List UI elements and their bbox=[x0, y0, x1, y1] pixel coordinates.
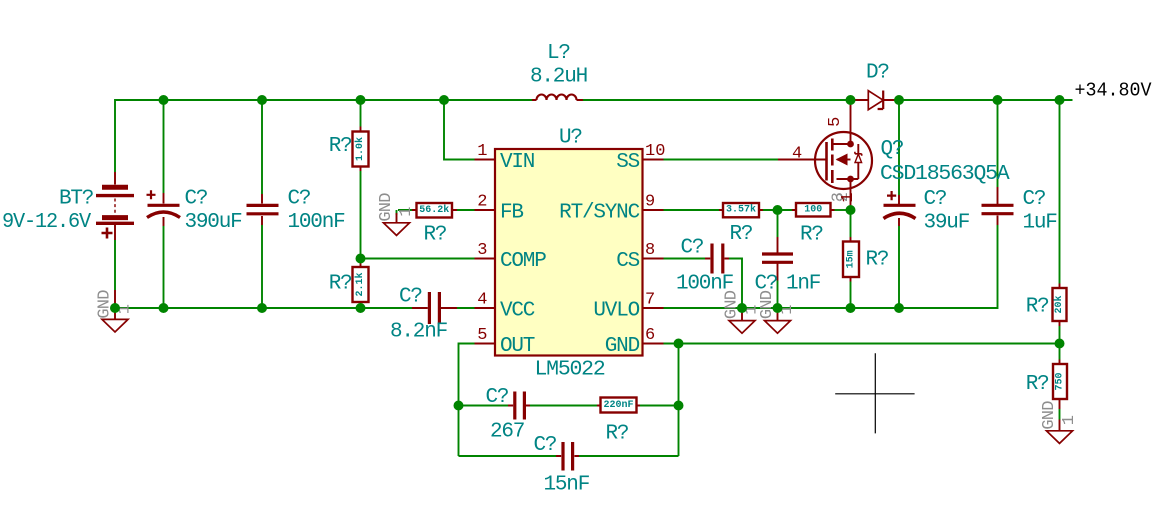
wire compensation right riser bbox=[678, 344, 680, 457]
wire compensation top branch bbox=[459, 405, 679, 407]
wire UVLO rail bbox=[664, 225, 998, 308]
ground symbol at FB divider bbox=[377, 193, 416, 236]
svg-text:RT/SYNC: RT/SYNC bbox=[559, 202, 639, 225]
wire R20k to divider node bbox=[1059, 326, 1061, 360]
svg-text:56.2k: 56.2k bbox=[419, 204, 449, 216]
capacitor C? 1uF bbox=[982, 187, 1014, 225]
svg-text:4: 4 bbox=[477, 291, 487, 310]
svg-text:C?: C? bbox=[681, 237, 704, 260]
svg-text:U?: U? bbox=[559, 127, 582, 150]
wire top rail left (battery to inductor) bbox=[115, 100, 532, 172]
junction at CS filter ground bbox=[737, 303, 747, 313]
svg-text:FB: FB bbox=[500, 202, 523, 225]
wire output column to R20k bbox=[1059, 100, 1061, 284]
svg-text:C?: C? bbox=[1023, 188, 1046, 211]
junction at battery ground bbox=[110, 303, 120, 313]
resistor R? 56.2k bbox=[412, 203, 457, 218]
wire R3.57k to R100 bbox=[763, 209, 792, 211]
svg-text:6: 6 bbox=[645, 326, 655, 345]
wire compensation bottom branch bbox=[459, 455, 679, 457]
wire VIN drop bbox=[444, 100, 475, 160]
wire C1nF column bbox=[777, 210, 779, 308]
svg-text:CSD18563Q5A: CSD18563Q5A bbox=[880, 163, 1010, 186]
svg-text:GND: GND bbox=[1040, 401, 1059, 430]
svg-text:R?: R? bbox=[1026, 296, 1049, 319]
IC U? pin 5 OUT stub bbox=[475, 343, 496, 345]
junction at output column top bbox=[1055, 95, 1065, 105]
svg-text:R?: R? bbox=[866, 249, 889, 272]
svg-text:3: 3 bbox=[477, 241, 487, 260]
wire column C100nF bottom bbox=[261, 225, 263, 308]
svg-text:1: 1 bbox=[1060, 415, 1079, 425]
junction at C1nF ground bbox=[773, 303, 783, 313]
junction at compensation left bbox=[454, 401, 464, 411]
resistor R? 3.57k bbox=[719, 203, 763, 217]
junction at GND pin rail bbox=[674, 339, 684, 349]
svg-text:4: 4 bbox=[792, 145, 802, 164]
svg-text:Q?: Q? bbox=[881, 138, 904, 161]
svg-text:R?: R? bbox=[329, 135, 352, 158]
junction at MOSFET source node bbox=[846, 205, 856, 215]
IC U? pin 1 VIN stub bbox=[475, 159, 496, 161]
capacitor C? 390uF (polarized) bbox=[147, 190, 181, 226]
wire MOSFET source to R15m bbox=[850, 210, 852, 237]
junction at C390uF bottom bbox=[159, 303, 169, 313]
wire R100 to MOSFET source node bbox=[835, 209, 851, 211]
wire C8.2nF to VCC pin bbox=[457, 307, 475, 309]
svg-text:LM5022: LM5022 bbox=[535, 359, 606, 382]
junction at VIN drop bbox=[439, 95, 449, 105]
svg-text:R?: R? bbox=[1026, 373, 1049, 396]
junction at compensation right bbox=[674, 401, 684, 411]
inductor L? 8.2uH bbox=[532, 95, 583, 101]
svg-text:BT?: BT? bbox=[59, 188, 93, 211]
svg-text:15nF: 15nF bbox=[544, 474, 590, 497]
svg-text:VIN: VIN bbox=[500, 151, 534, 174]
svg-text:7: 7 bbox=[645, 291, 655, 310]
capacitor C? 8.2nF bbox=[412, 292, 457, 324]
wire C39uF column bbox=[898, 100, 900, 308]
svg-text:1: 1 bbox=[839, 192, 858, 202]
svg-text:VCC: VCC bbox=[500, 300, 535, 323]
svg-text:R?: R? bbox=[329, 273, 352, 296]
IC U? pin 3 COMP stub bbox=[475, 258, 496, 260]
wire C100nF down to UVLO rail bbox=[729, 259, 742, 309]
svg-text:R?: R? bbox=[800, 223, 823, 246]
svg-text:220nF: 220nF bbox=[603, 400, 633, 411]
svg-text:8.2nF: 8.2nF bbox=[390, 321, 448, 344]
wire R750 to GND bbox=[1059, 409, 1061, 420]
junction at R1.0k top bbox=[356, 95, 366, 105]
svg-text:20k: 20k bbox=[1053, 295, 1065, 313]
wire top rail right (diode cathode to +34.80V) bbox=[899, 99, 1073, 101]
IC U? pin 2 FB stub bbox=[475, 209, 496, 211]
svg-text:5: 5 bbox=[477, 326, 487, 345]
ground symbol at battery bbox=[96, 290, 135, 332]
capacitor C? 267 bbox=[508, 392, 530, 420]
svg-text:750: 750 bbox=[1055, 372, 1066, 390]
svg-text:C?: C? bbox=[288, 188, 311, 211]
svg-text:GND: GND bbox=[96, 290, 115, 319]
wire GND pin rail to output divider bbox=[664, 343, 1060, 345]
svg-text:R?: R? bbox=[424, 223, 447, 246]
svg-text:2: 2 bbox=[477, 193, 487, 212]
svg-text:100: 100 bbox=[804, 204, 822, 215]
resistor R? 15m bbox=[843, 237, 859, 282]
junction at C390uF top bbox=[159, 95, 169, 105]
svg-text:GND: GND bbox=[605, 335, 640, 358]
origin cross marker bbox=[835, 353, 914, 433]
svg-text:+34.80V: +34.80V bbox=[1075, 80, 1152, 102]
junction at C1uF top bbox=[993, 95, 1003, 105]
ground symbol at output divider bbox=[1040, 401, 1079, 444]
svg-text:R?: R? bbox=[730, 223, 753, 246]
svg-text:GND: GND bbox=[377, 193, 396, 222]
svg-text:1uF: 1uF bbox=[1023, 212, 1058, 235]
wire column C100nF top bbox=[261, 100, 263, 194]
capacitor C? 100nF input (non-polarized) bbox=[247, 194, 279, 225]
svg-text:1: 1 bbox=[397, 207, 416, 217]
IC U? LM5022 body bbox=[495, 149, 643, 356]
wire RT/SYNC to R3.57k bbox=[664, 209, 720, 211]
svg-text:267: 267 bbox=[490, 421, 524, 444]
transistor Q? source pin numbers 1,2,3 bbox=[830, 192, 859, 202]
junction at C100nF bottom bbox=[257, 303, 267, 313]
ground symbol below C1nF bbox=[758, 290, 797, 333]
wire R15m to UVLO rail bbox=[850, 282, 852, 309]
capacitor C? 15nF bbox=[556, 442, 579, 471]
svg-text:390uF: 390uF bbox=[185, 211, 243, 234]
svg-text:2.1k: 2.1k bbox=[354, 272, 366, 296]
junction at R2.1k bottom bbox=[356, 303, 366, 313]
capacitor C? 100nF at CS bbox=[705, 244, 729, 274]
capacitor C? 39uF (polarized) bbox=[884, 191, 916, 226]
wire column C390uF top bbox=[163, 100, 165, 193]
battery BT? bbox=[96, 172, 134, 308]
IC U? pin 8 CS stub bbox=[643, 258, 664, 260]
svg-text:C?: C? bbox=[534, 434, 557, 457]
junction at RT/SYNC node bbox=[773, 205, 783, 215]
junction at COMP divider bbox=[356, 254, 366, 264]
junction at MOSFET drain bbox=[846, 95, 856, 105]
svg-text:1.0k: 1.0k bbox=[354, 137, 366, 161]
svg-text:5: 5 bbox=[826, 117, 845, 127]
ground symbol below CS filter bbox=[723, 290, 762, 333]
wire ground rail bottom left bbox=[115, 307, 412, 309]
svg-text:CS: CS bbox=[616, 250, 639, 273]
resistor R? 20k bbox=[1053, 284, 1067, 327]
diode D? (schottky) bbox=[851, 91, 900, 110]
svg-text:10: 10 bbox=[645, 142, 665, 161]
svg-text:100nF: 100nF bbox=[288, 211, 346, 234]
wire SS pin to MOSFET gate bbox=[664, 159, 779, 161]
svg-text:D?: D? bbox=[866, 62, 889, 85]
resistor R? 1.0k bbox=[353, 127, 369, 172]
wire FB pin to R56.2k bbox=[457, 209, 475, 211]
transistor Q? CSD18563Q5A (N-MOSFET) bbox=[778, 101, 872, 208]
svg-text:3.57k: 3.57k bbox=[726, 204, 756, 216]
resistor R? 750 bbox=[1053, 360, 1067, 410]
wire column R1.0k top bbox=[360, 100, 362, 127]
IC U? pin 4 VCC stub bbox=[475, 307, 496, 309]
junction at C100nF top bbox=[257, 95, 267, 105]
junction at diode cathode bbox=[894, 95, 904, 105]
wire column C390uF bottom bbox=[163, 226, 165, 308]
svg-text:C?: C? bbox=[185, 188, 208, 211]
svg-text:COMP: COMP bbox=[500, 250, 546, 273]
IC U? pin 7 UVLO stub bbox=[643, 307, 664, 309]
svg-text:OUT: OUT bbox=[500, 335, 535, 358]
wire battery minus to ground rail bbox=[114, 240, 116, 290]
junction at R15m bottom bbox=[846, 303, 856, 313]
IC U? pin 6 GND stub bbox=[643, 343, 664, 345]
junction at C39uF bottom bbox=[894, 303, 904, 313]
capacitor C? 1nF bbox=[762, 237, 793, 281]
svg-text:L?: L? bbox=[547, 42, 570, 65]
svg-text:39uF: 39uF bbox=[924, 212, 970, 235]
IC U? pin 10 SS stub bbox=[643, 159, 664, 161]
svg-text:C?: C? bbox=[924, 188, 947, 211]
svg-text:R?: R? bbox=[606, 423, 629, 446]
svg-text:C?: C? bbox=[486, 386, 509, 409]
IC U? pin 9 RT/SYNC stub bbox=[643, 209, 664, 211]
resistor R? 220nF bbox=[597, 398, 640, 413]
wire R2.1k bottom to ground rail bbox=[360, 302, 362, 308]
resistor R? 100 bbox=[792, 203, 835, 217]
wire CS pin to C100nF bbox=[664, 258, 706, 260]
wire top rail middle (inductor to MOSFET drain) bbox=[583, 99, 851, 101]
svg-text:SS: SS bbox=[616, 151, 639, 174]
svg-text:8.2uH: 8.2uH bbox=[530, 66, 587, 89]
wire C1uF top bbox=[997, 100, 999, 187]
svg-text:1nF: 1nF bbox=[786, 272, 821, 295]
wire R56.2k to GND corner bbox=[397, 210, 413, 215]
svg-text:9: 9 bbox=[645, 193, 655, 212]
svg-text:C?: C? bbox=[399, 286, 422, 309]
junction at output divider node bbox=[1055, 339, 1065, 349]
wire COMP to R divider node bbox=[361, 258, 475, 260]
svg-text:1: 1 bbox=[477, 142, 487, 161]
svg-text:UVLO: UVLO bbox=[593, 300, 639, 323]
svg-text:8: 8 bbox=[645, 241, 655, 260]
svg-text:9V-12.6V: 9V-12.6V bbox=[2, 211, 92, 234]
wire between R1.0k and R2.1k bbox=[360, 171, 362, 263]
wire OUT pin loop left bbox=[459, 344, 475, 457]
svg-text:15m: 15m bbox=[846, 250, 857, 268]
resistor R? 2.1k bbox=[353, 263, 369, 306]
